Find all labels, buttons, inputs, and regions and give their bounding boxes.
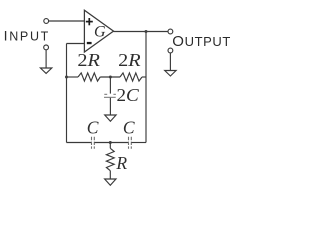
- wire bottom rail left: [67, 142, 92, 144]
- wire op-amp minus to left rail: [67, 43, 85, 45]
- capacitor C (right): [129, 137, 132, 149]
- op-amp U1: [84, 10, 113, 52]
- ground (input reference): [40, 50, 51, 74]
- svg-text:2C: 2C: [117, 85, 140, 105]
- svg-text:2R: 2R: [118, 50, 141, 70]
- wire input to op-amp +: [49, 20, 85, 22]
- wire 2C branch lower: [109, 98, 111, 115]
- resistor 2R (left): [78, 73, 100, 81]
- svg-text:C: C: [123, 117, 135, 137]
- svg-text:OUTPUT: OUTPUT: [172, 33, 231, 50]
- capacitor 2C: [104, 94, 116, 97]
- node output junction: [145, 30, 148, 33]
- wire left rail: [66, 44, 68, 143]
- svg-text:INPUT: INPUT: [4, 28, 50, 44]
- ground (output reference): [165, 53, 176, 76]
- node between 2R resistors: [109, 76, 112, 79]
- svg-text:R: R: [115, 153, 127, 173]
- wire between 2R resistors: [100, 76, 120, 78]
- svg-text:2R: 2R: [77, 50, 100, 70]
- op-amp plus sign: [86, 18, 93, 25]
- wire 2C branch upper: [109, 77, 111, 94]
- wire op-amp output: [114, 31, 169, 33]
- output reference terminal: [168, 48, 173, 53]
- capacitor C (left): [92, 137, 95, 149]
- wire right rail: [145, 32, 147, 143]
- output terminal: [168, 29, 173, 34]
- resistor 2R (right): [120, 73, 142, 81]
- ground (R): [105, 179, 116, 185]
- resistor R: [106, 148, 114, 170]
- wire R branch upper: [109, 143, 111, 149]
- op-amp minus sign: [87, 42, 92, 44]
- node left rail junction: [65, 76, 68, 79]
- input terminal: [44, 19, 49, 24]
- node bottom rail R branch: [109, 141, 112, 144]
- svg-text:G: G: [94, 24, 106, 41]
- wire bottom rail middle: [95, 142, 129, 144]
- ground (2C): [105, 115, 116, 121]
- svg-text:C: C: [87, 117, 99, 137]
- wire bottom rail right: [132, 142, 147, 144]
- wire top row left: [67, 76, 79, 78]
- input reference terminal: [44, 45, 49, 50]
- wire R branch lower: [109, 171, 111, 179]
- wire top row right: [142, 76, 146, 78]
